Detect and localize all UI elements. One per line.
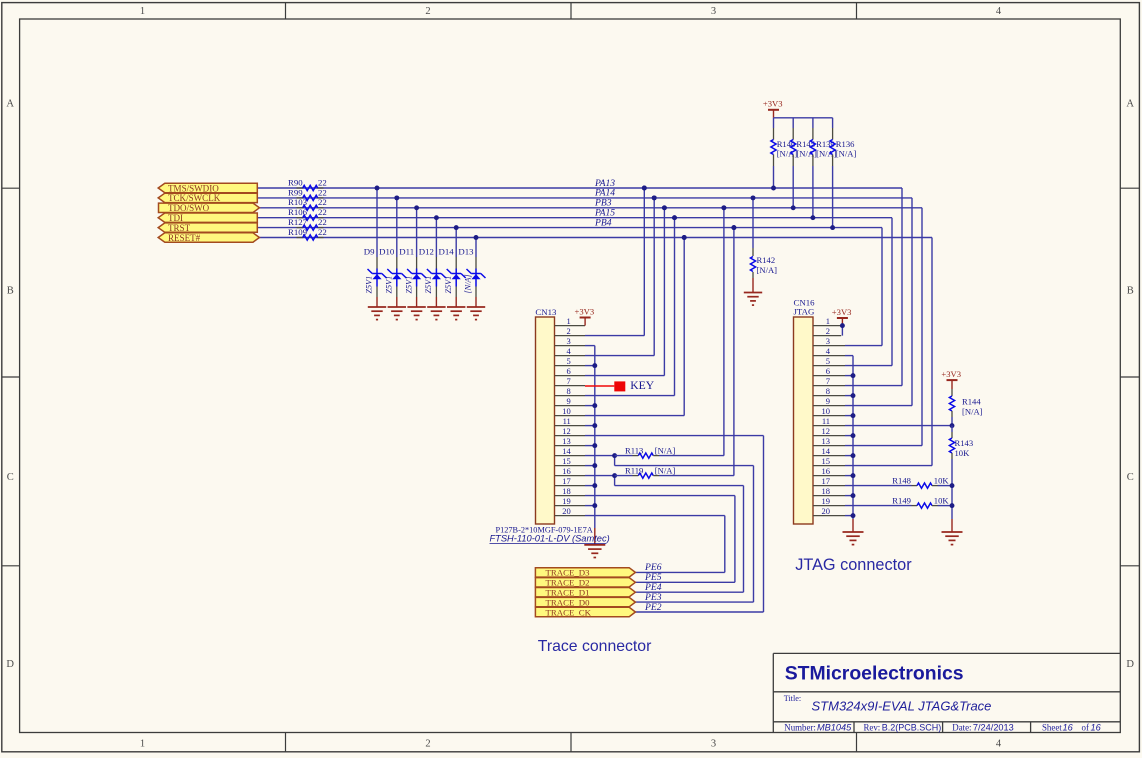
svg-text:B.2(PCB.SCH): B.2(PCB.SCH)	[882, 722, 942, 732]
svg-text:2: 2	[425, 739, 430, 750]
svg-text:2: 2	[425, 6, 430, 17]
svg-text:B: B	[1127, 285, 1134, 296]
wire CN16 pin 13 to bus	[845, 208, 922, 446]
svg-text:[N/A]: [N/A]	[655, 445, 676, 455]
port TMS/SWDIO	[158, 183, 257, 192]
wire CN13 pin 16 to PE4	[585, 476, 744, 593]
junction CN13 pin 2	[642, 186, 647, 191]
svg-text:R127: R127	[288, 217, 308, 227]
svg-text:11: 11	[822, 416, 830, 426]
power +3V3 at CN13 pin 1	[575, 306, 595, 325]
svg-text:PE2: PE2	[644, 602, 662, 613]
svg-text:2: 2	[567, 326, 571, 336]
svg-text:7/24/2013: 7/24/2013	[973, 722, 1014, 732]
svg-text:+3V3: +3V3	[575, 306, 595, 316]
svg-text:B: B	[7, 285, 14, 296]
svg-text:JTAG: JTAG	[794, 307, 815, 317]
connector CN16 body	[794, 317, 814, 524]
title block date	[952, 722, 1013, 732]
svg-text:C: C	[1127, 472, 1134, 483]
wire CN13 pin 18 to PE5	[585, 496, 735, 583]
wire CN13 pin 4 to bus	[585, 198, 654, 356]
svg-text:11: 11	[563, 416, 571, 426]
svg-text:TDO/SWO: TDO/SWO	[168, 203, 210, 213]
svg-text:1: 1	[826, 316, 830, 326]
svg-text:MB1045: MB1045	[817, 722, 852, 732]
svg-text:10: 10	[562, 406, 571, 416]
svg-text:R144: R144	[962, 397, 981, 407]
svg-text:D13: D13	[458, 247, 474, 257]
junction R119 PB4	[731, 225, 736, 230]
connector CN16 designator	[794, 297, 816, 316]
svg-text:CN13: CN13	[535, 307, 557, 317]
resistor R136 [N/A]	[830, 118, 856, 228]
resistor R142 [N/A]	[750, 198, 777, 293]
ground below CN13	[584, 545, 605, 558]
diode D14 Z5V1	[439, 228, 466, 307]
svg-text:15: 15	[562, 456, 571, 466]
resistor R145 [N/A]	[791, 118, 817, 208]
svg-text:TRACE_D3: TRACE_D3	[546, 568, 591, 578]
wire CN16 pin 11 to R143/R144 node	[845, 425, 952, 427]
ground below D12	[427, 307, 445, 320]
svg-text:D11: D11	[399, 247, 414, 257]
svg-text:PB4: PB4	[594, 217, 612, 228]
svg-text:Z5V1: Z5V1	[404, 276, 413, 294]
svg-text:5: 5	[826, 356, 830, 366]
title block revision	[864, 722, 942, 732]
junction CN13 pin 10	[682, 235, 687, 240]
port TRACE_D3	[535, 568, 635, 577]
resistor R106 22	[288, 207, 327, 220]
svg-text:of: of	[1082, 722, 1089, 732]
svg-text:R136: R136	[836, 139, 855, 149]
svg-text:R90: R90	[288, 177, 303, 187]
wire CN13 pin 14 to PE3	[585, 456, 754, 602]
svg-text:20: 20	[562, 506, 571, 516]
svg-text:18: 18	[562, 486, 571, 496]
svg-text:[N/A]: [N/A]	[836, 148, 857, 158]
svg-text:16: 16	[1091, 722, 1102, 732]
svg-text:16: 16	[562, 466, 571, 476]
svg-text:Title:: Title:	[784, 694, 801, 703]
diode D10 Z5V1	[379, 198, 406, 307]
svg-text:R149: R149	[892, 495, 911, 505]
ground below D14	[447, 307, 465, 320]
svg-text:1: 1	[140, 6, 145, 17]
svg-text:4: 4	[567, 346, 572, 356]
svg-text:C: C	[7, 472, 14, 483]
svg-text:17: 17	[562, 476, 571, 486]
resistor R113 [N/A]	[615, 445, 724, 458]
svg-text:Date:: Date:	[952, 722, 971, 732]
svg-text:15: 15	[822, 456, 831, 466]
svg-text:D12: D12	[419, 247, 434, 257]
svg-text:1: 1	[567, 316, 571, 326]
junction dots CN13 ground bus	[592, 363, 597, 508]
svg-text:Rev:: Rev:	[864, 722, 881, 732]
diode D9 Z5V1	[364, 188, 387, 307]
svg-text:R148: R148	[892, 475, 911, 485]
svg-text:13: 13	[822, 436, 831, 446]
svg-text:Number:: Number:	[784, 722, 816, 732]
CN16 pin stubs and numbers	[813, 316, 845, 516]
svg-text:D: D	[6, 659, 14, 670]
title block sheet	[1042, 722, 1102, 732]
svg-text:TRACE_D2: TRACE_D2	[546, 578, 590, 588]
svg-text:D10: D10	[379, 247, 395, 257]
diode D12 Z5V1	[419, 218, 446, 307]
svg-text:RESET#: RESET#	[168, 233, 201, 243]
wire RESET# bus line	[259, 237, 932, 239]
svg-text:9: 9	[567, 396, 571, 406]
title block frame	[773, 653, 1120, 732]
svg-text:4: 4	[996, 6, 1002, 17]
port TRACE_D2	[535, 578, 635, 587]
wire CN13 pin 20 to PE6	[585, 516, 725, 573]
power +3V3 above R144	[941, 369, 961, 389]
svg-text:10: 10	[822, 406, 831, 416]
wire CN16 pin 15 to bus	[845, 238, 932, 466]
svg-text:JTAG connector: JTAG connector	[795, 556, 912, 574]
port TDI	[158, 213, 257, 222]
svg-text:3: 3	[711, 6, 716, 17]
svg-text:22: 22	[318, 217, 327, 227]
svg-text:R113: R113	[625, 445, 643, 455]
wire R119 to PB4	[733, 228, 735, 476]
svg-text:22: 22	[318, 177, 327, 187]
svg-text:14: 14	[562, 446, 571, 456]
svg-text:TRACE_D1: TRACE_D1	[546, 588, 590, 598]
svg-text:7: 7	[826, 376, 830, 386]
resistor R139 [N/A]	[810, 118, 836, 218]
svg-text:3: 3	[826, 336, 830, 346]
junction CN13 pin 4	[652, 195, 657, 200]
svg-text:TDI: TDI	[168, 213, 183, 223]
svg-text:14: 14	[822, 446, 831, 456]
svg-text:3: 3	[567, 336, 571, 346]
svg-text:1: 1	[140, 739, 145, 750]
resistor R99 22	[288, 187, 327, 200]
junction CN13 pin 14	[612, 453, 617, 458]
junction dots bus rows	[375, 186, 836, 240]
ground below R143	[942, 532, 963, 545]
svg-text:D9: D9	[364, 247, 375, 257]
svg-text:7: 7	[567, 376, 571, 386]
svg-text:17: 17	[822, 476, 831, 486]
svg-text:12: 12	[822, 426, 831, 436]
wire PA13 bus line	[257, 187, 902, 189]
svg-text:13: 13	[562, 436, 571, 446]
svg-text:TCK/SWCLK: TCK/SWCLK	[168, 193, 221, 203]
svg-text:R99: R99	[288, 187, 303, 197]
title block number	[784, 722, 852, 732]
svg-text:19: 19	[822, 496, 831, 506]
wire PB4 bus line	[257, 227, 882, 229]
wire CN16 ground bus	[845, 356, 853, 532]
diode D13 [N/A]	[458, 238, 485, 308]
svg-text:19: 19	[562, 496, 571, 506]
svg-text:Sheet: Sheet	[1042, 722, 1062, 732]
port TDO/SWO	[159, 203, 260, 212]
port TRACE_CK	[535, 607, 635, 616]
svg-text:TMS/SWDIO: TMS/SWDIO	[168, 183, 219, 193]
wire CN13 pin 10 to bus	[585, 238, 684, 416]
wire CN16 pin 5 to bus	[845, 218, 892, 366]
svg-text:R106: R106	[288, 207, 308, 217]
CN13 pin stubs and numbers	[555, 316, 586, 516]
resistor R119 [N/A]	[615, 465, 734, 478]
junction dots CN16 ground bus	[851, 373, 856, 518]
wire CN16 pin 9 to bus	[845, 198, 912, 406]
svg-text:8: 8	[826, 386, 830, 396]
junction CN16 pin1 +3V3	[840, 323, 845, 328]
svg-text:16: 16	[1063, 722, 1074, 732]
svg-text:22: 22	[318, 207, 327, 217]
svg-text:D: D	[1126, 659, 1134, 670]
svg-text:20: 20	[822, 506, 831, 516]
junction R148 node	[950, 483, 955, 488]
svg-text:18: 18	[822, 486, 831, 496]
wire CN13 pin 2 to bus	[585, 188, 644, 336]
svg-text:TRST: TRST	[168, 223, 191, 233]
power +3V3 top pull-up rail	[763, 99, 783, 118]
power +3V3 at CN16 pins 1-2	[832, 307, 852, 336]
svg-text:[N/A]: [N/A]	[655, 465, 676, 475]
ground below D11	[407, 307, 425, 320]
svg-text:+3V3: +3V3	[763, 99, 783, 109]
svg-text:Z5V1: Z5V1	[424, 276, 433, 294]
wire CN13 ground bus	[585, 346, 595, 545]
svg-text:10K: 10K	[934, 495, 950, 505]
svg-text:STMicroelectronics: STMicroelectronics	[785, 663, 964, 685]
svg-text:2: 2	[826, 326, 830, 336]
connector CN13 body	[536, 317, 555, 524]
svg-text:TRACE_CK: TRACE_CK	[546, 607, 592, 617]
svg-text:+3V3: +3V3	[941, 369, 961, 379]
junction CN13 pin 16	[612, 473, 617, 478]
svg-text:KEY: KEY	[630, 379, 654, 392]
junction R113 PB3	[721, 205, 726, 210]
wire R113 to PB3	[723, 208, 725, 456]
resistor R127 22	[288, 217, 327, 230]
junction R144/R143 pin11	[950, 423, 955, 428]
port TRACE_D1	[535, 588, 635, 597]
svg-text:A: A	[1126, 98, 1134, 109]
svg-text:22: 22	[318, 227, 327, 237]
svg-text:22: 22	[318, 187, 327, 197]
wire PA15 bus line	[257, 217, 892, 219]
junction R149 node	[950, 503, 955, 508]
junction CN13 pin 6	[662, 205, 667, 210]
wire CN13 pin 12 to PE2	[585, 436, 764, 612]
svg-text:R103: R103	[288, 197, 308, 207]
CN13 Samtec part (link)	[490, 534, 610, 544]
diode D11 Z5V1	[399, 208, 426, 307]
svg-text:[N/A]: [N/A]	[464, 274, 473, 293]
wire PB3 bus line	[259, 207, 922, 209]
svg-text:3: 3	[711, 739, 716, 750]
resistor R140 [N/A]	[771, 118, 797, 188]
resistor R143 10K	[949, 426, 973, 532]
svg-text:STM324x9I-EVAL JTAG&Trace: STM324x9I-EVAL JTAG&Trace	[812, 699, 992, 714]
junction CN13 pin 8	[672, 215, 677, 220]
svg-text:FTSH-110-01-L-DV (Samtec): FTSH-110-01-L-DV (Samtec)	[490, 534, 610, 544]
svg-text:TRACE_D0: TRACE_D0	[546, 597, 591, 607]
resistor R149 10K	[845, 495, 952, 508]
port TRST	[158, 223, 257, 232]
svg-text:R109: R109	[288, 227, 308, 237]
resistor R90 22	[288, 177, 327, 190]
svg-text:9: 9	[826, 396, 830, 406]
svg-text:[N/A]: [N/A]	[962, 406, 983, 416]
svg-text:5: 5	[567, 356, 571, 366]
svg-text:R142: R142	[757, 255, 776, 265]
wire KEY (red)	[585, 385, 614, 387]
svg-text:16: 16	[822, 466, 831, 476]
ground below CN16	[843, 532, 864, 545]
svg-text:10K: 10K	[934, 475, 950, 485]
ground below D10	[388, 307, 406, 320]
svg-text:Z5V1: Z5V1	[365, 276, 374, 294]
svg-text:A: A	[6, 98, 14, 109]
ground below D13	[467, 307, 485, 320]
svg-text:[N/A]: [N/A]	[757, 265, 778, 275]
svg-text:Z5V1: Z5V1	[444, 276, 453, 294]
svg-text:8: 8	[567, 386, 571, 396]
resistor R148 10K	[845, 475, 952, 488]
resistor R144 [N/A]	[949, 389, 982, 426]
wire CN16 pin 7 to bus	[845, 188, 902, 386]
port RESET#	[158, 233, 259, 242]
port TRACE_D0	[535, 597, 635, 606]
port TCK/SWCLK	[158, 193, 257, 202]
svg-text:6: 6	[567, 366, 571, 376]
wire CN16 pin 3 to bus	[845, 228, 882, 346]
svg-text:R143: R143	[955, 438, 974, 448]
svg-text:6: 6	[826, 366, 830, 376]
svg-text:10K: 10K	[955, 448, 971, 458]
wire PA14 bus line	[257, 197, 912, 199]
wire CN13 pin 6 to bus	[585, 208, 664, 376]
resistor R109 22	[288, 227, 327, 240]
svg-text:4: 4	[996, 739, 1002, 750]
resistor R103 22	[288, 197, 327, 210]
svg-text:Z5V1: Z5V1	[385, 276, 394, 294]
svg-text:Trace connector: Trace connector	[538, 638, 652, 655]
svg-text:D14: D14	[439, 247, 455, 257]
wire +3V3 rail to pull resistors	[774, 117, 833, 119]
svg-text:22: 22	[318, 197, 327, 207]
svg-text:12: 12	[562, 426, 571, 436]
ground below R142	[744, 293, 762, 306]
wire CN13 pin 8 to bus	[585, 218, 675, 396]
KEY square	[614, 381, 625, 391]
ground below D9	[368, 307, 386, 320]
svg-text:R119: R119	[625, 465, 643, 475]
svg-text:+3V3: +3V3	[832, 307, 852, 317]
